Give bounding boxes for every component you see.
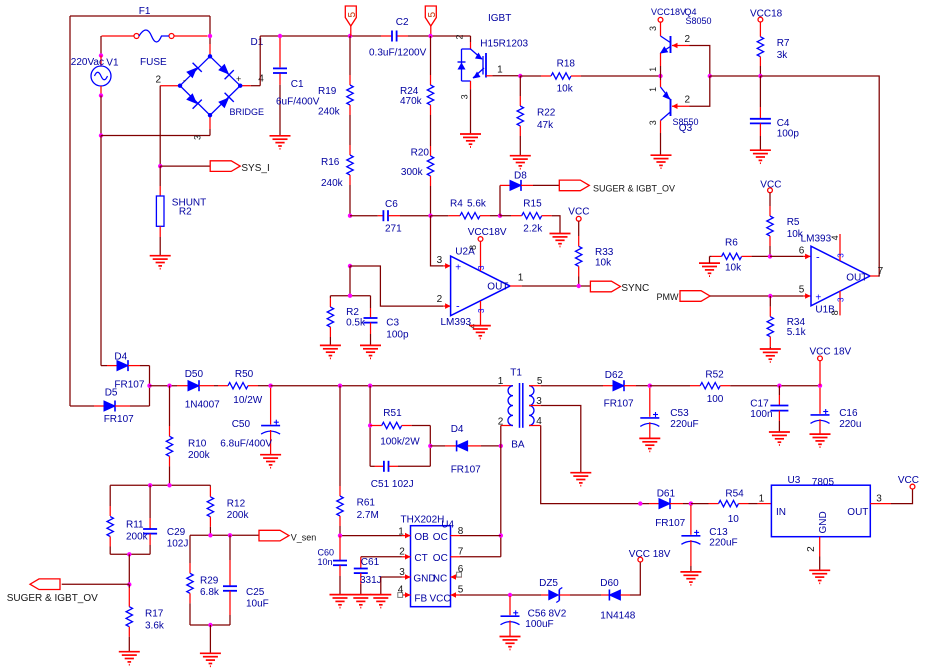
- svg-text:NC: NC: [433, 573, 447, 584]
- svg-text:R15: R15: [523, 199, 542, 210]
- wire R2 C3 top: [330, 295, 370, 297]
- svg-text:SUGER & IGBT_OV: SUGER & IGBT_OV: [7, 593, 98, 604]
- capacitor C1: [279, 38, 281, 67]
- node R7 C4: [758, 74, 762, 78]
- svg-text:10k: 10k: [725, 263, 742, 274]
- resistor R24 470k: [430, 36, 432, 75]
- wire T1 pin4 to D61: [541, 426, 649, 504]
- node D50 in: [147, 384, 151, 388]
- port SYS_I: [210, 161, 240, 172]
- svg-text:R2: R2: [346, 307, 359, 318]
- node SYNC: [577, 284, 581, 288]
- wire D4-D5 join: [149, 366, 151, 406]
- svg-text:1: 1: [518, 272, 524, 283]
- svg-text:OUT: OUT: [487, 282, 508, 293]
- node D61 line: [638, 501, 642, 505]
- svg-text:PMW: PMW: [657, 292, 680, 302]
- node R12 bottom: [208, 533, 212, 537]
- node C56: [508, 593, 512, 597]
- resistor R61 2.7M: [339, 386, 341, 486]
- capacitor C53 220uF: [649, 388, 651, 417]
- ground C13: [680, 571, 701, 573]
- transistor Q4 S8050: [660, 22, 662, 36]
- svg-text:200k: 200k: [188, 450, 211, 461]
- svg-text:SYNC: SYNC: [621, 283, 649, 294]
- svg-text:5: 5: [347, 12, 358, 18]
- svg-text:10k: 10k: [595, 258, 612, 269]
- power VCC U3 out: [891, 489, 913, 504]
- wire U4 pin2: [361, 556, 402, 558]
- capacitor C6 271: [350, 215, 378, 217]
- op-amp U1B LM393: [803, 255, 810, 257]
- wire bus to U1B out: [760, 76, 879, 276]
- node V1 top: [99, 53, 103, 57]
- ground C4: [750, 149, 771, 151]
- svg-text:FR107: FR107: [604, 398, 634, 409]
- svg-text:R11: R11: [126, 520, 144, 531]
- svg-text:C50: C50: [232, 419, 251, 430]
- svg-text:D62: D62: [605, 370, 624, 381]
- svg-text:6.8uF/400V: 6.8uF/400V: [220, 439, 272, 450]
- ground C16: [810, 433, 831, 435]
- svg-text:100k/2W: 100k/2W: [380, 436, 420, 447]
- wire IGBT out: [492, 75, 520, 77]
- node R2 C3: [348, 294, 352, 298]
- resistor R22 47k: [519, 76, 521, 96]
- bridge rectifier D1 BRIDGE: [209, 36, 211, 44]
- ground IGBT: [460, 133, 481, 135]
- node R2 line tap: [348, 264, 352, 268]
- wire divider bottom line: [110, 553, 150, 555]
- svg-text:D1: D1: [251, 37, 264, 48]
- diode D4 FR107: [101, 365, 107, 367]
- svg-text:0.5k: 0.5k: [346, 318, 366, 329]
- svg-text:4: 4: [830, 235, 840, 240]
- svg-text:220uF: 220uF: [670, 419, 698, 430]
- svg-text:220uF: 220uF: [709, 538, 737, 549]
- svg-text:C6: C6: [385, 199, 398, 210]
- node C29 top: [148, 483, 152, 487]
- wire R24-R20: [430, 115, 432, 146]
- ground C1: [270, 135, 291, 137]
- resistor R52 100: [650, 385, 690, 387]
- node Q loop: [708, 74, 712, 78]
- svg-text:200k: 200k: [227, 510, 250, 521]
- node R17 top: [127, 552, 131, 556]
- svg-text:3: 3: [648, 120, 658, 125]
- svg-text:C16: C16: [839, 408, 858, 419]
- svg-text:4: 4: [258, 74, 264, 85]
- svg-text:R22: R22: [537, 108, 556, 119]
- svg-text:VCC 18V: VCC 18V: [810, 346, 852, 357]
- svg-text:VCC18V: VCC18V: [468, 227, 507, 238]
- svg-text:D5: D5: [105, 387, 118, 398]
- wire R51 right side: [429, 426, 431, 467]
- port SUGER & IGBT_OV top: [559, 180, 589, 191]
- svg-text:3: 3: [837, 297, 846, 302]
- ground C50: [260, 454, 281, 456]
- ground R6: [699, 262, 720, 264]
- wire V_sen line: [190, 534, 259, 536]
- wire T1 pin3 to ground: [541, 406, 581, 473]
- svg-text:FR107: FR107: [451, 465, 481, 476]
- ground C56: [500, 636, 521, 638]
- wire IGBT gate to ground: [470, 81, 472, 89]
- wire R19-R16: [349, 115, 351, 145]
- node U1B in5: [768, 294, 772, 298]
- svg-text:3k: 3k: [777, 50, 789, 61]
- svg-text:C61: C61: [361, 557, 380, 568]
- svg-text:+: +: [455, 263, 461, 274]
- resistor R29 6.8k: [189, 535, 191, 563]
- wire U2A out: [522, 285, 591, 287]
- svg-text:S8050: S8050: [686, 16, 712, 26]
- wire U4 pin5 line: [460, 594, 541, 596]
- svg-text:220Vac: 220Vac: [71, 57, 104, 68]
- resistor R4 5.6k: [431, 215, 449, 217]
- node R61 top: [338, 384, 342, 388]
- svg-text:FR107: FR107: [104, 414, 134, 425]
- svg-text:R2: R2: [179, 207, 192, 218]
- resistor R33 10k: [578, 221, 580, 236]
- svg-text:5: 5: [458, 585, 464, 596]
- diode D62 FR107: [541, 385, 603, 387]
- svg-text:8: 8: [468, 245, 478, 250]
- wire U4 pin7 to column: [460, 556, 501, 558]
- wire V1 to bridge bottom: [100, 96, 102, 136]
- svg-text:D50: D50: [185, 369, 204, 380]
- svg-text:C2: C2: [396, 17, 409, 28]
- diode D61 FR107: [649, 503, 659, 505]
- svg-text:-: -: [456, 301, 460, 313]
- wire shunt column: [159, 86, 161, 166]
- resistor R34 5.1k: [769, 296, 771, 307]
- svg-text:2.2k: 2.2k: [523, 224, 543, 235]
- svg-text:VCC18: VCC18: [750, 9, 783, 20]
- svg-text:300k: 300k: [401, 167, 424, 178]
- resistor R5 10k: [769, 193, 771, 206]
- capacitor C3 100p: [370, 296, 372, 308]
- svg-text:R6: R6: [725, 238, 738, 249]
- wire PMW to pin5: [710, 295, 803, 297]
- svg-text:4: 4: [398, 585, 404, 596]
- svg-text:100p: 100p: [386, 329, 409, 340]
- node C6 left: [348, 214, 352, 218]
- capacitor C25 10uF: [229, 535, 231, 560]
- ground C17: [769, 431, 790, 433]
- svg-text:R50: R50: [235, 369, 254, 380]
- wire R51 left side: [369, 386, 371, 467]
- svg-text:OUT: OUT: [847, 507, 868, 518]
- svg-text:3: 3: [193, 135, 203, 140]
- svg-text:1N4148: 1N4148: [600, 611, 635, 622]
- wire bases to R7 node: [710, 75, 761, 77]
- node C53: [648, 384, 652, 388]
- svg-text:R4: R4: [450, 199, 463, 210]
- svg-text:R33: R33: [595, 247, 614, 258]
- resistor R17 3.6k: [128, 585, 130, 589]
- svg-text:U3: U3: [788, 475, 801, 486]
- svg-text:1: 1: [759, 494, 765, 505]
- svg-text:D8: D8: [514, 170, 527, 181]
- svg-text:THX202H: THX202H: [401, 515, 445, 526]
- capacitor C61 331J: [360, 557, 362, 569]
- svg-text:3: 3: [477, 308, 486, 313]
- node C13: [689, 501, 693, 505]
- svg-text:IGBT: IGBT: [488, 13, 511, 24]
- svg-text:DZ5: DZ5: [539, 578, 558, 589]
- svg-text:6: 6: [458, 564, 464, 575]
- svg-text:8V2: 8V2: [549, 609, 567, 620]
- wire T1 pin2 column: [500, 426, 502, 557]
- svg-text:220u: 220u: [839, 419, 861, 430]
- svg-text:-: -: [816, 251, 820, 263]
- svg-text:C4: C4: [777, 118, 790, 129]
- diode DZ5 8V2 zener: [541, 594, 548, 596]
- resistor R2 SHUNT: [159, 166, 161, 186]
- svg-text:3: 3: [460, 94, 470, 99]
- svg-text:R51: R51: [383, 408, 402, 419]
- svg-text:2: 2: [455, 34, 465, 39]
- svg-text:C53: C53: [670, 408, 689, 419]
- svg-text:BRIDGE: BRIDGE: [230, 107, 265, 117]
- svg-text:CT: CT: [414, 553, 427, 564]
- svg-text:OUT: OUT: [846, 273, 867, 284]
- svg-text:R19: R19: [318, 86, 337, 97]
- fuse F1: [102, 35, 135, 37]
- svg-text:D4: D4: [451, 424, 464, 435]
- svg-text:+: +: [815, 292, 821, 303]
- svg-text:LM393: LM393: [801, 234, 832, 245]
- svg-text:OC: OC: [433, 553, 448, 564]
- resistor R50 10/2W: [218, 385, 228, 387]
- svg-text:R52: R52: [705, 370, 724, 381]
- ic U4 THX202H: [411, 526, 451, 607]
- svg-text:U4: U4: [441, 520, 454, 531]
- svg-text:1: 1: [648, 67, 658, 72]
- svg-text:T1: T1: [510, 367, 522, 378]
- node R10 top: [167, 384, 171, 388]
- capacitor C56 100uF: [509, 596, 511, 615]
- svg-text:FUSE: FUSE: [140, 57, 167, 68]
- svg-text:C3: C3: [386, 318, 399, 329]
- resistor R20 300k: [430, 146, 432, 156]
- svg-text:6: 6: [799, 246, 805, 257]
- ground C61: [350, 594, 371, 596]
- svg-text:5: 5: [427, 12, 438, 18]
- capacitor C13 220uF: [690, 505, 692, 535]
- svg-text:47k: 47k: [537, 120, 554, 131]
- svg-text:VCC18V: VCC18V: [651, 7, 686, 17]
- svg-text:1: 1: [398, 526, 404, 537]
- node V1 bottom: [99, 93, 103, 97]
- svg-text:OB: OB: [414, 532, 429, 543]
- resistor R12 200k: [209, 485, 211, 487]
- wire U4 pin1: [340, 535, 402, 537]
- capacitor C4 100p: [759, 76, 761, 107]
- resistor R2 0.5k: [329, 296, 331, 298]
- svg-text:271: 271: [385, 224, 402, 235]
- wire R16 down: [349, 185, 351, 216]
- svg-text:C1: C1: [291, 79, 304, 90]
- svg-text:10k: 10k: [557, 84, 574, 95]
- svg-text:R10: R10: [188, 439, 207, 450]
- svg-text:7: 7: [878, 266, 884, 277]
- svg-text:240k: 240k: [321, 178, 344, 189]
- ground R29 C25: [200, 652, 221, 654]
- svg-text:100p: 100p: [777, 129, 800, 140]
- ground R22: [510, 155, 531, 157]
- transistor Q3 S8550: [660, 76, 662, 80]
- wire SYS_I: [160, 165, 210, 167]
- wire U2A in2 route: [350, 266, 443, 306]
- svg-text:100uF: 100uF: [525, 619, 553, 630]
- node bus R19: [348, 34, 352, 38]
- svg-text:R61: R61: [357, 498, 376, 509]
- svg-text:VCC 18V: VCC 18V: [629, 549, 671, 560]
- capacitor C29 102J: [149, 485, 151, 518]
- resistor R16 240k: [349, 145, 351, 155]
- svg-text:3: 3: [837, 253, 846, 258]
- wire V1 feed: [100, 36, 102, 56]
- ground R34: [760, 348, 781, 350]
- node bus C1: [278, 34, 282, 38]
- svg-text:OC: OC: [433, 532, 448, 543]
- svg-text:10uF: 10uF: [246, 599, 269, 610]
- diode D8: [499, 185, 501, 215]
- source V1 220Vac: [100, 56, 102, 67]
- svg-text:3: 3: [437, 255, 443, 266]
- wire Q3 base loop: [690, 76, 710, 106]
- capacitor C51 102J: [370, 465, 374, 467]
- op-amp U2A LM393: [443, 265, 450, 267]
- resistor R11 200k: [109, 485, 111, 506]
- net flag 5 right: [425, 6, 436, 26]
- svg-text:R54: R54: [725, 489, 744, 500]
- svg-text:3: 3: [648, 26, 658, 31]
- wire D50 bus to T1: [271, 385, 501, 387]
- ground T1 pin3: [570, 472, 591, 474]
- diode D60 1N4148: [601, 594, 609, 596]
- ground R15: [550, 233, 571, 235]
- svg-text:R18: R18: [557, 58, 576, 69]
- wire U4 pin8 to column: [460, 535, 501, 537]
- diode D5 FR107: [70, 405, 94, 407]
- capacitor C60 10n: [339, 536, 341, 551]
- svg-text:2: 2: [156, 75, 162, 86]
- svg-text:1: 1: [497, 64, 503, 75]
- transistor IGBT H15R1203: [470, 42, 472, 50]
- svg-text:R5: R5: [787, 217, 800, 228]
- svg-text:1N4007: 1N4007: [185, 400, 220, 411]
- svg-text:1: 1: [498, 376, 504, 387]
- svg-text:102J: 102J: [167, 539, 189, 550]
- node F1 bridge top: [208, 34, 212, 38]
- svg-text:5.6k: 5.6k: [467, 199, 487, 210]
- resistor R6 10k: [709, 256, 711, 263]
- svg-text:C51 102J: C51 102J: [371, 479, 414, 490]
- svg-text:2: 2: [437, 294, 443, 305]
- node R51 block top: [368, 384, 372, 388]
- svg-text:3: 3: [399, 567, 405, 578]
- svg-text:R16: R16: [321, 157, 340, 168]
- ground shunt: [150, 255, 171, 257]
- svg-text:GND: GND: [818, 511, 829, 533]
- svg-text:100n: 100n: [750, 409, 772, 420]
- svg-text:FB: FB: [414, 594, 427, 605]
- svg-text:VCC: VCC: [430, 594, 451, 605]
- node R10 bottom: [167, 483, 171, 487]
- svg-text:H15R1203: H15R1203: [480, 38, 528, 49]
- svg-text:Q3: Q3: [679, 123, 693, 134]
- svg-text:R12: R12: [227, 499, 246, 510]
- svg-text:D4: D4: [114, 352, 127, 363]
- wire U2A in3: [431, 216, 444, 266]
- capacitor C2: [381, 35, 392, 37]
- resistor R18 10k: [520, 75, 541, 77]
- svg-text:6.8k: 6.8k: [200, 587, 220, 598]
- wire bus to IGBT: [470, 36, 472, 42]
- svg-text:0.3uF/1200V: 0.3uF/1200V: [369, 48, 427, 59]
- wire R16 to R2 line: [349, 266, 351, 296]
- svg-text:8: 8: [830, 310, 840, 315]
- diode D50 1N4007: [150, 385, 178, 387]
- diode D4 FR107 snubber: [430, 445, 445, 447]
- node Q bases: [658, 74, 662, 78]
- node U1B in6: [768, 254, 772, 258]
- wire U4 pin3: [380, 577, 382, 594]
- port V_sen: [259, 530, 289, 541]
- svg-text:3: 3: [876, 494, 882, 505]
- capacitor C17 100n: [778, 386, 780, 395]
- svg-text:240k: 240k: [318, 107, 341, 118]
- svg-text:4: 4: [536, 416, 542, 427]
- resistor R19 240k: [349, 36, 351, 75]
- svg-text:SUGER & IGBT_OV: SUGER & IGBT_OV: [593, 184, 675, 194]
- svg-text:5: 5: [799, 285, 805, 296]
- wire V1 column down to D4: [100, 136, 102, 366]
- resistor R15 2.2k: [500, 215, 511, 217]
- node SUGER junction: [127, 582, 131, 586]
- svg-text:C17: C17: [750, 398, 769, 409]
- ground C3: [360, 344, 381, 346]
- node C6 right: [428, 214, 432, 218]
- node bottom gnd tap: [208, 623, 212, 627]
- node C50: [268, 384, 272, 388]
- svg-text:C25: C25: [246, 587, 265, 598]
- wire top-left loop: [70, 15, 210, 17]
- svg-text:F1: F1: [139, 6, 151, 17]
- wire bridge out to bus: [251, 85, 260, 87]
- svg-text:V1: V1: [106, 58, 119, 69]
- resistor R7 3k: [759, 22, 761, 37]
- svg-text:R17: R17: [145, 609, 164, 620]
- svg-text:SYS_I: SYS_I: [241, 163, 269, 174]
- wire SUGER to R17: [62, 583, 130, 585]
- node R4 out: [498, 214, 502, 218]
- svg-text:2: 2: [685, 95, 691, 106]
- node bus R24: [428, 34, 432, 38]
- svg-text:3.6k: 3.6k: [145, 620, 165, 631]
- node T1 pin2 col: [499, 444, 503, 448]
- wire R29 C25 bottom: [190, 624, 230, 626]
- svg-text:331J: 331J: [360, 575, 382, 586]
- node C17: [777, 384, 781, 388]
- svg-text:10n: 10n: [318, 557, 333, 567]
- net flag 5 left: [345, 6, 356, 26]
- port SUGER & IGBT_OV bottom: [30, 579, 60, 590]
- svg-text:7: 7: [458, 547, 464, 558]
